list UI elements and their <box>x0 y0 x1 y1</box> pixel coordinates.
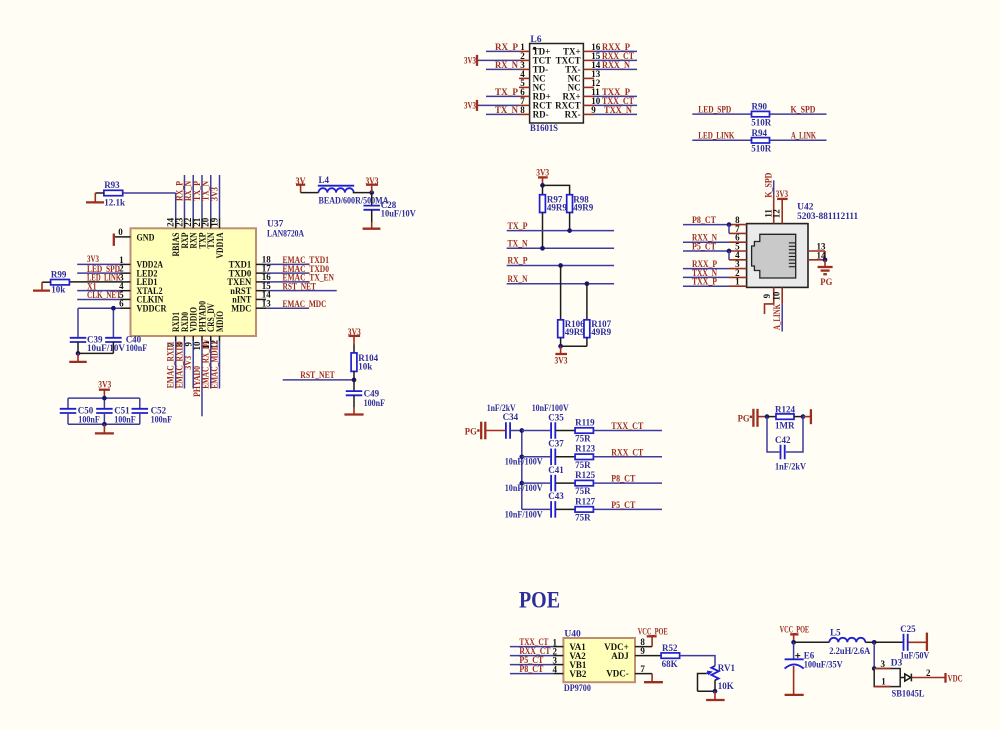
svg-text:5203-881112111: 5203-881112111 <box>797 212 858 222</box>
node LED_LINK label <box>87 273 121 283</box>
node junction R98/TX_P <box>567 228 572 233</box>
wire trunk to C37 <box>522 456 551 458</box>
svg-text:L6: L6 <box>530 35 541 45</box>
svg-text:1nF/2kV: 1nF/2kV <box>775 462 806 472</box>
svg-text:R94: R94 <box>752 128 768 138</box>
wire R90 to K_SPD <box>770 104 827 114</box>
wire P5_CT to U40 pin3 <box>510 655 564 665</box>
capacitor C41 <box>548 465 564 491</box>
svg-text:TX_P: TX_P <box>508 221 528 231</box>
svg-text:R119: R119 <box>575 417 595 427</box>
svg-text:VCC_POE: VCC_POE <box>780 625 810 635</box>
U42 bottom pin 10 wire A_LINK <box>772 287 782 331</box>
earth ground PG at U42 <box>818 260 833 287</box>
wire RXX_P to U42 pin3 <box>683 259 729 269</box>
svg-text:10nF/100V: 10nF/100V <box>532 403 569 413</box>
node EMAC_RXD1 label (vertical) <box>166 341 176 388</box>
svg-text:4: 4 <box>553 664 558 674</box>
svg-text:C34: C34 <box>503 412 519 422</box>
capacitor E6 electrolytic <box>785 642 844 669</box>
L6 left pin numbers 1-8 <box>520 42 525 115</box>
capacitor C25 <box>900 624 929 660</box>
svg-text:RX-: RX- <box>565 110 581 120</box>
svg-text:RD-: RD- <box>533 110 549 120</box>
svg-text:100nF: 100nF <box>126 343 148 353</box>
svg-text:10k: 10k <box>51 285 65 295</box>
U37 left pin wires pins 1-6 <box>69 264 130 308</box>
node PHYAD0 label (vertical) <box>192 365 202 396</box>
node junction trunk row3 <box>519 481 524 486</box>
wire trunk to C43 <box>522 508 551 510</box>
svg-text:7: 7 <box>640 664 645 674</box>
U37 bottom pin numbers 7-12 <box>166 340 220 351</box>
U37 pin 0 GND wire <box>114 227 131 237</box>
U40 left pin numbers 1-4 <box>553 637 558 674</box>
svg-text:L5: L5 <box>830 628 841 638</box>
U37 top pin stubs and wires pins 24-19 <box>176 175 220 228</box>
svg-text:75R: 75R <box>575 434 591 444</box>
svg-text:P8_CT: P8_CT <box>519 664 543 674</box>
svg-text:49R9: 49R9 <box>591 327 611 337</box>
svg-text:3V3: 3V3 <box>464 55 476 65</box>
svg-text:VDC-: VDC- <box>606 669 629 679</box>
wire K_SPD to U42 pin11 <box>763 172 773 197</box>
wire R99 to ground <box>42 282 51 290</box>
wire R52 to RV1 <box>680 656 715 666</box>
wire C25 <box>874 641 903 643</box>
resistor R97 <box>540 195 568 213</box>
wire L5 node to D3 <box>873 642 875 668</box>
svg-text:MDIO: MDIO <box>215 311 225 332</box>
svg-text:C41: C41 <box>548 465 564 475</box>
svg-text:PG: PG <box>738 413 750 423</box>
wire P5_CT to U42 pin5 <box>683 241 729 251</box>
node junction under C39 <box>76 351 81 356</box>
U37 right pin wires pins 18-13 <box>256 264 337 308</box>
power port 3V at L4 <box>296 176 306 193</box>
wire D3 to VDC <box>911 668 945 678</box>
resistor R99 <box>51 269 70 294</box>
svg-text:10uF/10V: 10uF/10V <box>87 343 125 353</box>
wire RXX_N to U42 pin6 <box>683 233 729 243</box>
svg-text:49R9: 49R9 <box>573 202 593 212</box>
wire R106 R107 bottoms <box>561 338 587 347</box>
svg-text:510R: 510R <box>751 117 772 127</box>
U37 top pin numbers 24-19 <box>166 217 220 227</box>
svg-text:100uF/35V: 100uF/35V <box>804 659 843 669</box>
wire RX_N to R107 <box>586 284 588 320</box>
wire C35 to R119 <box>556 430 575 432</box>
svg-text:1MR: 1MR <box>775 421 795 431</box>
wire TXX_N to U42 pin2 <box>683 268 729 278</box>
svg-text:PG: PG <box>820 277 832 287</box>
svg-text:U37: U37 <box>267 220 284 230</box>
svg-text:C25: C25 <box>900 624 916 634</box>
node TX_P label (vertical) <box>192 181 202 201</box>
svg-text:A_LINK: A_LINK <box>772 304 782 330</box>
svg-text:100nF: 100nF <box>151 414 173 424</box>
svg-text:RX_P: RX_P <box>495 42 518 52</box>
node junction L5/C25/D3 <box>872 640 877 645</box>
capacitor C50 <box>60 405 100 424</box>
wire P8_CT to U40 pin4 <box>510 664 564 674</box>
power port 3V3 above R97 R98 <box>536 168 549 186</box>
svg-text:C43: C43 <box>548 491 564 501</box>
ground under C49 <box>344 408 363 415</box>
svg-text:POE: POE <box>519 587 560 612</box>
U37 pin names top row rotated <box>171 232 225 258</box>
wire RXX_P from L6 pin16 <box>594 42 637 52</box>
svg-text:9: 9 <box>640 646 645 656</box>
node junction bottom rail <box>102 422 107 427</box>
svg-text:10nF/100V: 10nF/100V <box>505 483 543 493</box>
wire P8_CT to U42 pin8 <box>683 215 729 225</box>
wire C28 to ground <box>371 210 373 222</box>
svg-text:10uF/10V: 10uF/10V <box>381 209 416 219</box>
svg-text:10: 10 <box>771 291 781 301</box>
power port 3V3 at C28 <box>366 176 379 193</box>
wire TX_P to L6 pin6 <box>486 87 519 97</box>
node junction PG/R124 <box>765 414 770 419</box>
svg-text:K_SPD: K_SPD <box>791 104 816 114</box>
svg-text:P8_CT: P8_CT <box>611 474 635 484</box>
svg-text:3V3: 3V3 <box>210 187 220 201</box>
svg-text:D3: D3 <box>891 658 903 668</box>
node junction 3V3/R97 <box>540 183 545 188</box>
wire C41 to R125 <box>556 482 575 484</box>
wire C34 to trunk <box>511 430 522 432</box>
U42 left pin numbers <box>735 215 740 287</box>
wire RX_P to L6 pin1 <box>486 42 519 52</box>
svg-text:R124: R124 <box>775 404 795 414</box>
svg-text:13: 13 <box>262 299 272 309</box>
svg-text:C35: C35 <box>548 412 564 422</box>
svg-text:0: 0 <box>118 227 123 237</box>
wire R127 to P5_CT <box>593 500 662 510</box>
L6 pin names left column <box>533 47 552 120</box>
capacitor C37 <box>548 439 564 465</box>
wire R94 to A_LINK <box>770 131 827 141</box>
U42 bottom pin 9 wire <box>765 287 774 314</box>
inductor L5 <box>829 628 870 656</box>
node EMAC_RX_DV label (vertical) <box>201 338 211 388</box>
node junction P8_CT branch <box>727 222 732 233</box>
wire TXX_P from L6 pin11 <box>594 87 637 97</box>
resistor R94 <box>751 128 772 154</box>
node junction RX_P/R106 <box>558 263 563 268</box>
resistor R93 <box>104 180 125 208</box>
wire trunk vertical <box>521 431 523 510</box>
node RX_P label (vertical) <box>174 181 184 201</box>
node junction R124 right <box>801 414 806 419</box>
svg-text:SB1045L: SB1045L <box>892 690 925 700</box>
resistor R98 <box>567 195 594 213</box>
svg-text:19: 19 <box>210 217 220 227</box>
port PG at R124 <box>738 409 767 427</box>
node junction RX_N/R107 <box>585 281 590 286</box>
svg-text:ADJ: ADJ <box>611 651 629 661</box>
svg-text:1: 1 <box>881 676 886 686</box>
capacitor C39 <box>70 335 126 354</box>
wire bottom rail C50-C52 <box>68 413 140 424</box>
svg-text:3V3: 3V3 <box>536 168 549 178</box>
svg-text:B1601S: B1601S <box>530 124 558 134</box>
wire L5 to C25 node <box>865 641 874 643</box>
svg-text:12.1k: 12.1k <box>104 198 125 208</box>
node CLK_NET label <box>87 290 121 300</box>
svg-text:9: 9 <box>591 105 596 115</box>
capacitor C49 <box>346 380 386 408</box>
wire RX_P <box>507 256 614 266</box>
diode D3 SB1045L body <box>874 658 924 699</box>
svg-text:75R: 75R <box>575 486 591 496</box>
svg-text:DP9700: DP9700 <box>564 684 591 694</box>
regulator U40 DP9700 body <box>563 629 635 693</box>
U40 pin names right <box>604 642 629 679</box>
resistor R119 <box>575 417 595 443</box>
svg-text:100nF: 100nF <box>364 398 386 408</box>
U37 pin names right column <box>227 260 251 314</box>
capacitor C52 <box>132 405 173 424</box>
value 10nF/100V for C35 <box>532 403 569 413</box>
svg-text:R90: R90 <box>752 102 768 112</box>
svg-text:A_LINK: A_LINK <box>791 131 816 141</box>
wire R119 to TXX_CT <box>593 421 662 431</box>
node LED_SPD label <box>87 264 120 274</box>
svg-text:R93: R93 <box>104 180 120 190</box>
wire C49 to ground <box>353 395 355 408</box>
svg-text:MDC: MDC <box>231 303 251 313</box>
node EMAC_MDC label <box>283 299 327 309</box>
svg-text:TXX_P: TXX_P <box>692 277 717 287</box>
wire R93 left to ground <box>95 193 104 202</box>
wire VDDCR rail to C39 C40 <box>78 308 113 338</box>
wire trunk to C41 <box>522 482 551 484</box>
svg-text:510R: 510R <box>751 144 772 154</box>
wire RX_N <box>507 274 614 284</box>
svg-text:R125: R125 <box>575 470 595 480</box>
wire 3V3 rail top of C50-C52 <box>68 398 140 409</box>
svg-text:100nF: 100nF <box>78 414 100 424</box>
node EMAC_TXD1 label <box>283 255 330 265</box>
svg-text:3V3: 3V3 <box>776 189 789 199</box>
L6 pin names right column <box>555 47 581 120</box>
U40 pin8 VDC+ wire and VCC_POE port <box>635 627 668 648</box>
node junction trunk row1 <box>519 428 524 433</box>
wire C43 to R127 <box>556 508 575 510</box>
wire RX_N to L6 pin3 <box>486 60 519 70</box>
svg-text:1uF/50V: 1uF/50V <box>900 651 929 661</box>
svg-text:RXX_CT: RXX_CT <box>611 447 643 457</box>
svg-text:VDD1A: VDD1A <box>215 232 225 258</box>
svg-text:EMAC_MDC: EMAC_MDC <box>283 299 327 309</box>
U42 top pin stubs 11 12 <box>774 196 783 224</box>
L6 right pin stubs 16-9 <box>583 51 594 114</box>
svg-text:VCC_POE: VCC_POE <box>638 627 668 637</box>
svg-text:TX_N: TX_N <box>508 239 528 249</box>
node EMAC_MDIO label (vertical) <box>210 342 220 389</box>
svg-text:C37: C37 <box>548 439 564 449</box>
node junction R106 bottom <box>558 344 563 349</box>
wire C39 C40 bottoms <box>78 342 113 353</box>
wire TX_N to L6 pin8 <box>486 105 519 115</box>
U42 left pin stubs 8-1 <box>729 225 747 287</box>
resistor R123 <box>575 444 595 470</box>
resistor R107 <box>584 319 612 337</box>
node EMAC_RXD0 label (vertical) <box>174 341 184 388</box>
svg-text:3V3: 3V3 <box>464 100 476 110</box>
svg-text:RX_P: RX_P <box>508 256 528 266</box>
svg-text:9: 9 <box>762 293 772 298</box>
ground under RV1 <box>706 691 725 700</box>
svg-text:2: 2 <box>926 668 931 678</box>
node junction trunk row2 <box>519 454 524 459</box>
svg-text:P5_CT: P5_CT <box>611 500 635 510</box>
svg-text:3V3: 3V3 <box>98 380 111 390</box>
resistor R125 <box>575 470 595 496</box>
wire R98 to TX_P <box>569 213 571 231</box>
svg-text:75R: 75R <box>575 512 591 522</box>
capacitor C42 <box>775 435 806 472</box>
resistor R90 <box>751 102 772 128</box>
RV1 wiper arrow <box>698 671 713 692</box>
svg-text:C42: C42 <box>775 435 791 445</box>
potentiometer RV1 <box>711 663 735 691</box>
wire TXX_N from L6 pin9 <box>594 105 637 115</box>
svg-text:68K: 68K <box>662 659 678 669</box>
wire TXX_CT to U40 pin1 <box>510 637 564 647</box>
svg-text:P5_CT: P5_CT <box>692 241 716 251</box>
value 10nF/100V for C43 <box>505 510 543 520</box>
ground at R93 <box>86 201 104 203</box>
diode D3 symbol <box>900 674 911 682</box>
svg-text:U40: U40 <box>564 629 581 639</box>
U40 pin names left <box>569 642 587 679</box>
node TX_N label (vertical) <box>201 181 211 201</box>
wire 3V3 node to R97 and R98 <box>543 185 570 194</box>
power bar at U37 pin0 <box>113 234 115 246</box>
wire R93 to pin24 <box>123 192 176 194</box>
wire L4 to 3V3 node <box>353 192 372 194</box>
wire VCC_POE node to L5 <box>794 641 830 643</box>
U37 pin names left column <box>137 232 167 313</box>
svg-text:R127: R127 <box>575 496 595 506</box>
U37 pin names bottom row rotated <box>171 301 225 332</box>
capacitor C51 <box>96 405 136 424</box>
power bar right of R124 <box>803 409 811 424</box>
connector U42 RJ45 body <box>747 202 859 287</box>
capacitor C28 <box>363 193 416 219</box>
value 10nF/100V for C37 <box>505 457 543 467</box>
svg-text:3: 3 <box>881 659 886 669</box>
wire R125 to P8_CT <box>593 474 662 484</box>
svg-text:10nF/100V: 10nF/100V <box>505 457 543 467</box>
title POE <box>519 587 560 612</box>
wire TX_P <box>507 221 614 231</box>
power bar right of C25 <box>909 633 927 651</box>
resistor R104 <box>351 345 379 372</box>
node EMAC_TXD0 label <box>283 264 330 274</box>
node junction RST_NET/C49 <box>352 378 357 383</box>
node junction pin14 <box>823 257 828 262</box>
svg-text:RX_N: RX_N <box>508 274 528 284</box>
wire LED_SPD to R90 <box>692 104 751 114</box>
node junction D3 pin3 <box>872 666 877 671</box>
svg-text:1: 1 <box>735 277 740 287</box>
capacitor C35 <box>548 412 564 438</box>
svg-text:R99: R99 <box>51 269 67 279</box>
svg-text:TX_P: TX_P <box>495 87 519 97</box>
wire TXX_P to U42 pin1 <box>683 277 729 287</box>
IC U37 LAN8720A body <box>131 220 305 337</box>
inductor L4 BEAD <box>318 175 389 205</box>
wire 3V to L4 <box>301 192 319 194</box>
power port 3V3 below R106 <box>555 346 568 365</box>
wire RX_P to R106 <box>560 266 562 320</box>
wire RST_NET <box>283 379 354 381</box>
wire RXX_CT from L6 pin15 <box>594 51 637 61</box>
svg-text:8: 8 <box>520 105 525 115</box>
power port VCC_POE at E6 <box>780 625 810 643</box>
svg-text:VDC: VDC <box>948 674 963 684</box>
wire RV1 bottom <box>698 680 716 691</box>
svg-text:U42: U42 <box>797 202 814 212</box>
U37 right pin numbers 18-13 <box>262 255 272 309</box>
power port 3V3 above C51 <box>98 380 111 399</box>
node junction pin6/C40 <box>111 306 116 311</box>
capacitor C34 <box>487 403 519 439</box>
U40 pin9 ADJ wire <box>635 646 661 656</box>
node 3V3 label at pin1 <box>87 254 99 264</box>
svg-text:10nF/100V: 10nF/100V <box>505 510 543 520</box>
svg-text:K_SPD: K_SPD <box>763 172 773 197</box>
svg-text:R52: R52 <box>662 643 678 653</box>
node junction RV1 bottom <box>713 689 718 694</box>
node EMAC_TX_EN label <box>283 273 335 283</box>
svg-text:BEAD/600R/500MA: BEAD/600R/500MA <box>319 195 389 205</box>
wire RXX_N from L6 pin14 <box>594 60 637 70</box>
wire TXX_CT from L6 pin10 <box>594 96 637 106</box>
node 3V3 label (vertical, bottom) <box>183 355 193 369</box>
svg-text:10K: 10K <box>718 681 734 691</box>
svg-text:TXX_N: TXX_N <box>604 105 632 115</box>
U37 bottom pin wires pins 7-12 <box>176 336 220 416</box>
resistor R106 <box>558 319 585 337</box>
transformer L6 B1601S body <box>530 35 584 134</box>
resistor R127 <box>575 496 595 522</box>
node junction P5_CT branch <box>727 249 732 260</box>
svg-text:1nF/2kV: 1nF/2kV <box>487 403 516 413</box>
svg-text:12: 12 <box>772 209 782 219</box>
power port 3V3 at L6 pin2 <box>464 55 519 66</box>
svg-text:TX_N: TX_N <box>495 105 518 115</box>
wire C37 to R123 <box>556 456 575 458</box>
node RX_N label (vertical) <box>183 181 193 201</box>
svg-text:2.2uH/2.6A: 2.2uH/2.6A <box>829 646 870 656</box>
svg-text:49R9: 49R9 <box>547 202 567 212</box>
svg-text:L4: L4 <box>319 175 330 185</box>
wire trunk to C35 <box>522 430 551 432</box>
svg-text:100nF: 100nF <box>114 414 136 424</box>
svg-text:LED_SPD: LED_SPD <box>698 104 731 114</box>
svg-text:CLK_NET: CLK_NET <box>87 290 121 300</box>
node junction VCC_POE/E6 <box>791 640 796 645</box>
node junction L4/C28 <box>369 190 374 195</box>
svg-text:VB2: VB2 <box>569 669 587 679</box>
wire R124 to C42 loop <box>767 417 803 452</box>
L6 right pin numbers 16-9 <box>591 42 601 115</box>
U42 jack inner shape <box>752 234 796 278</box>
